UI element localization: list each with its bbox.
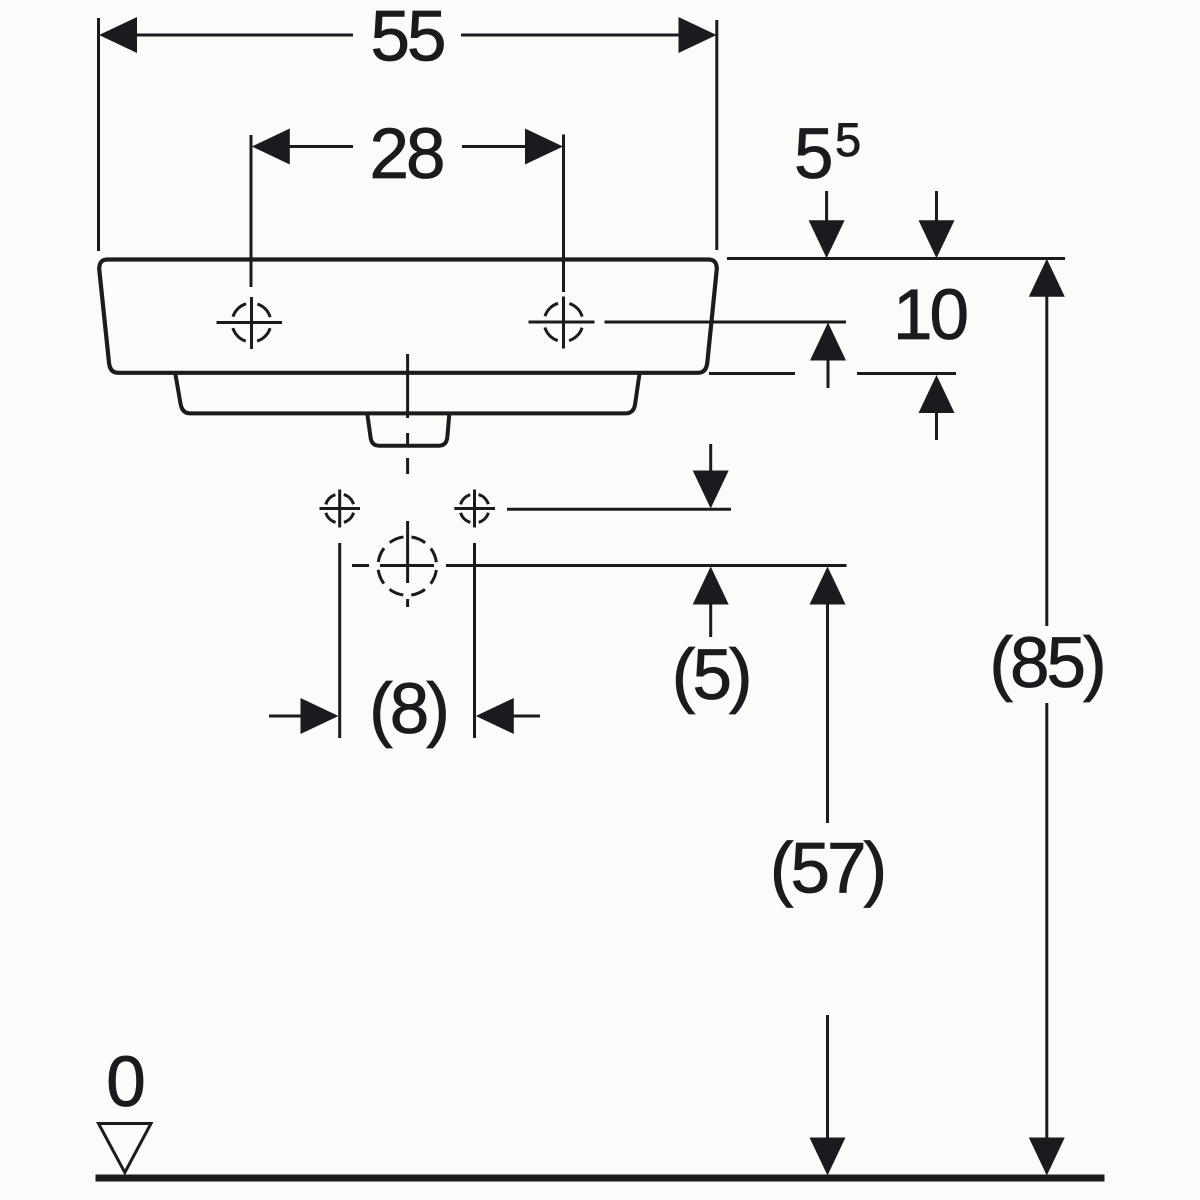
wire: drain center line long right [446, 564, 847, 567]
drain boss (third tier) [367, 414, 449, 446]
tap hole left (dashed circle with crosshair) [217, 297, 283, 349]
label 5-5 down arrow [809, 191, 845, 258]
svg-text:(57): (57) [770, 830, 884, 909]
label (5) down arrow [693, 444, 729, 509]
arrow: 28 left arrowhead [252, 129, 290, 165]
node: vertical centerline (dash-dot) [406, 354, 409, 418]
basin body outline [99, 260, 717, 373]
wire: mounting holes line to right [507, 508, 731, 511]
label (5) up arrow [693, 567, 729, 638]
svg-text:5: 5 [835, 113, 860, 166]
svg-text:55: 55 [371, 0, 444, 77]
wire: extension line left of 28 dim [250, 135, 253, 287]
svg-text:5: 5 [794, 115, 831, 194]
label 5-5 up arrow [810, 323, 846, 389]
arrow: 55 right arrowhead [679, 17, 717, 53]
svg-text:10: 10 [893, 276, 966, 355]
wire: extension line left of 55 dim [97, 18, 100, 251]
arrow: 55 left arrowhead [99, 17, 137, 53]
wire: basin bottom extension line right segment a [709, 372, 795, 375]
wire: extension line right of 55 dim [715, 20, 718, 250]
wire: basin bottom extension line right segment b [857, 372, 956, 375]
svg-text:(85): (85) [989, 624, 1103, 703]
wire: (8) extension line left [338, 543, 341, 738]
wire: top edge extension line to right [727, 257, 1065, 260]
wire: 28 dimension line right segment [462, 145, 527, 148]
svg-text:0: 0 [106, 1043, 143, 1122]
dimension (85) vertical line with arrows [1029, 259, 1065, 1176]
wire: drain line dash left [352, 564, 369, 567]
basin apron (second tier) [175, 373, 639, 413]
wire: 28 dimension line left segment [288, 145, 353, 148]
svg-text:28: 28 [370, 115, 443, 194]
wire: 55 dimension line left segment [134, 34, 353, 37]
mounting hole right (dashed circle with crosshair) [454, 490, 495, 528]
wire: (8) extension line right [473, 543, 476, 738]
svg-text:(8): (8) [369, 670, 447, 749]
label 10 down arrow [919, 191, 955, 258]
label 10 up arrow [919, 375, 955, 440]
ground line [96, 1175, 1105, 1182]
tap hole right (dashed circle with crosshair) [529, 297, 595, 349]
wire: 55 dimension line right segment [461, 34, 681, 37]
mounting hole left (dashed circle with crosshair) [320, 490, 361, 528]
dimension (57) vertical line with arrows [810, 567, 846, 1176]
label (8) left arrow [269, 698, 339, 734]
drain circle (dashed) with crosshair [378, 537, 437, 596]
wire: extension line right of 28 dim [562, 135, 565, 293]
wire: tap hole line extension to right [605, 321, 847, 324]
datum triangle at 0 level [99, 1124, 152, 1173]
label (8) right arrow [476, 698, 540, 734]
arrow: 28 right arrowhead [525, 129, 563, 165]
svg-text:(5): (5) [672, 636, 750, 715]
